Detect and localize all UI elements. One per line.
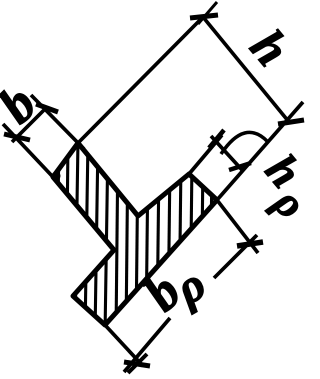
dimension line bp segment 1: [124, 318, 170, 372]
tick b right: [36, 104, 58, 112]
extension line b right: [31, 95, 84, 149]
tick bp right: [237, 242, 263, 246]
svg-text:h: h: [240, 19, 301, 76]
extension line bp right: [217, 200, 258, 253]
extension line hp top: [189, 135, 222, 174]
junction blob at web top-left corner: [52, 172, 61, 181]
section outline: [53, 143, 217, 325]
dimension line b: [12, 107, 47, 142]
tick top of h: [190, 2, 218, 24]
extension line bp left: [105, 325, 143, 366]
leader arc hp: [221, 132, 268, 154]
hatch: [56, 140, 212, 335]
top edge extension line: [78, 17, 203, 143]
tick b left: [4, 134, 30, 140]
dimension line hp: [211, 136, 243, 171]
dimension line h: [203, 17, 289, 122]
tick bottom of h: [278, 120, 304, 124]
tick bp left: [124, 354, 150, 373]
extension line b left: [3, 124, 53, 177]
tick hp bottom: [229, 163, 251, 170]
tick hp top: [209, 130, 224, 148]
bottom edge extension line: [217, 102, 303, 200]
dimension line bp segment 2: [214, 235, 257, 278]
